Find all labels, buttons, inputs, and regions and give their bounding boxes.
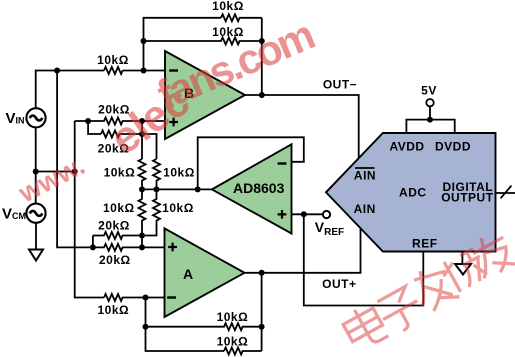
wire: rowB node to right 10k column top (142, 134, 157, 159)
node dot B output (259, 92, 265, 98)
bus slash (501, 186, 512, 199)
svg-text:10kΩ: 10kΩ (104, 165, 136, 179)
ground below VCM (29, 250, 43, 261)
svg-text:ADC: ADC (399, 186, 427, 200)
AINbar overline (355, 167, 375, 169)
wire: VIN top rail to B inverting input (36, 71, 165, 109)
wire: VIN bottom to VCM top with branch (35, 127, 37, 204)
resistor 10k (VIN to B-) (104, 67, 123, 74)
node dot rowA left (85, 118, 91, 124)
terminal VREF (323, 211, 330, 218)
B inverting input mark (169, 69, 178, 71)
svg-text:10kΩ: 10kΩ (162, 201, 194, 215)
svg-text:20kΩ: 20kΩ (98, 218, 130, 232)
svg-text:10kΩ: 10kΩ (217, 335, 249, 349)
svg-text:OUT+: OUT+ (322, 277, 356, 291)
wire: right feedback riser to A output (261, 273, 263, 351)
wire: right feedback riser to B output (261, 18, 263, 95)
resistor 20k row1 (VIN to A+) (93, 232, 142, 239)
node dot row2 left (90, 244, 96, 250)
svg-text:10kΩ: 10kΩ (103, 201, 135, 215)
resistor 10k right column upper (153, 159, 160, 189)
svg-text:AVDD: AVDD (389, 140, 424, 154)
svg-text:REF: REF (412, 237, 438, 251)
wire: left feedback riser (144, 18, 222, 71)
svg-text:A: A (183, 266, 193, 282)
resistor 10k right column lower (142, 189, 160, 235)
node dot left feedback mid (143, 324, 149, 330)
node dot row1 right (139, 233, 145, 239)
node dot AD8603 feedback tap (195, 186, 201, 192)
node dot A-feedback right (259, 324, 265, 330)
resistor 10k feedback top (221, 14, 262, 21)
op-amp A (165, 228, 245, 317)
source VCM sine mark (30, 211, 43, 216)
source VIN (26, 108, 45, 127)
wire: A output OUT+ to ADC AIN (245, 229, 361, 273)
resistor 10k A-feedback first (146, 323, 262, 330)
node dot rowA right (B+ node) (139, 118, 145, 124)
watermark chinese 电子发烧友 (340, 229, 515, 353)
svg-text:OUT−: OUT− (323, 78, 357, 92)
node dot rowB right (139, 131, 145, 137)
svg-text:DVDD: DVDD (435, 140, 471, 154)
resistor 20k rowA (VCM to B+) (75, 118, 165, 125)
B non-inverting input mark (169, 118, 178, 127)
wire: digital output bus (496, 192, 515, 194)
svg-text:AIN: AIN (354, 168, 376, 182)
svg-text:AD8603: AD8603 (233, 180, 285, 196)
op-amp B (165, 51, 245, 139)
wire: B+ node down to left 10k column (141, 121, 143, 159)
watermark www. (13, 10, 321, 208)
wire: row1 left down to row2 (92, 236, 94, 248)
node dot row2 right (A+ node) (139, 244, 145, 250)
ADC block (326, 133, 496, 252)
svg-text:10kΩ: 10kΩ (163, 166, 195, 180)
svg-text:10kΩ: 10kΩ (97, 53, 129, 67)
node dot VCM branch to 20k column (72, 169, 78, 175)
A non-inverting input mark (168, 243, 177, 252)
resistor 20k rowB (parallel) (101, 131, 142, 138)
wire: VREF down and over to ADC REF pin (304, 214, 424, 305)
resistor 10k feedback second (144, 38, 262, 45)
AD8603 non-inverting input mark (278, 210, 287, 219)
node dot VREF (301, 211, 307, 217)
wire: VCM to ground (35, 223, 37, 250)
wire: VCM vertical column to 20k rowA and 10k to A- (75, 121, 104, 298)
wire: VIN branch down to 20k row2 (57, 71, 93, 248)
resistor 10k left column lower (139, 189, 146, 235)
node dot VIN/VCM rail at VCM wire (33, 169, 39, 175)
op-amp U1 AD8603 (drawn pointing left) (212, 144, 292, 233)
wire: AD8603 feedback loop (198, 137, 304, 189)
node mid divider wire to AD8603 (142, 188, 212, 190)
ground below ADC (455, 264, 471, 275)
node dot 5V (427, 117, 433, 123)
svg-text:5V: 5V (421, 84, 437, 98)
svg-text:10kΩ: 10kΩ (97, 303, 129, 317)
wire: row1/row2 right junction (141, 236, 143, 248)
wire: B output OUT- to ADC AINbar (245, 95, 359, 159)
node dot VIN rail branch (54, 68, 60, 74)
wire: 5V to AVDD/DVDD pins (406, 107, 454, 134)
svg-text:10kΩ: 10kΩ (212, 0, 244, 13)
wire: ADC ground stub (461, 252, 463, 265)
wire: left feedback drop (146, 298, 225, 352)
wire: VCM horizontal branch (36, 171, 75, 173)
node dot left feedback mid (141, 38, 147, 44)
node dot A output (259, 270, 265, 276)
svg-text:20kΩ: 20kΩ (99, 253, 131, 267)
resistor 10k left column upper (139, 159, 146, 189)
terminal 5V (426, 99, 433, 106)
svg-text:AIN: AIN (354, 202, 376, 216)
wire: AD8603 + output to VREF terminal (292, 213, 323, 215)
resistor 20k row2 (parallel, to A+) (93, 244, 165, 251)
wire: rowA left down to rowB (88, 121, 101, 134)
node dot divider right column (154, 186, 160, 192)
node dot divider left column (139, 186, 145, 192)
resistor 10k (VCM to A-) (104, 294, 165, 301)
A inverting input mark (167, 296, 176, 298)
resistor 10k A-feedback second (224, 348, 262, 355)
node dot B- feedback tap (141, 68, 147, 74)
svg-text:10kΩ: 10kΩ (217, 310, 249, 324)
node dot A- feedback tap (143, 295, 149, 301)
source VCM (26, 204, 45, 223)
source VIN sine mark (30, 116, 43, 121)
node dot right feedback mid (259, 38, 265, 44)
svg-text:OUTPUT: OUTPUT (441, 190, 494, 204)
AD8603 inverting input mark (278, 162, 287, 164)
